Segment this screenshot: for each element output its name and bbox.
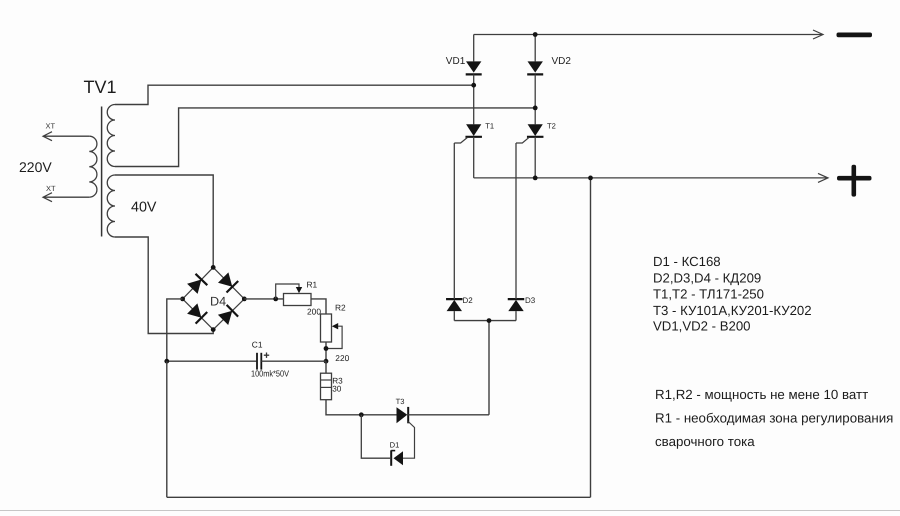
thyristor T2	[516, 124, 543, 143]
wire VD1 to T1	[473, 74, 475, 124]
label D1	[390, 440, 400, 449]
wire riser T3 to D2 D3 join	[488, 321, 490, 415]
node bridge bottom	[211, 327, 216, 332]
svg-text:100mk*50V: 100mk*50V	[251, 368, 289, 378]
diode D3	[508, 299, 525, 311]
svg-text:D2,D3,D4 - КД209: D2,D3,D4 - КД209	[653, 270, 761, 285]
bridge diode D4 bottom-left	[187, 303, 207, 323]
wire bridge left to C1 rail	[167, 299, 183, 361]
label VD2	[552, 56, 572, 67]
wire primary top lead	[43, 135, 89, 137]
svg-text:VD2: VD2	[552, 56, 572, 67]
wire T3 gate	[403, 422, 415, 459]
node D2 D3 join	[487, 318, 492, 323]
wire bridge right to R1	[244, 298, 283, 300]
svg-text:D2: D2	[463, 296, 474, 305]
label 30	[332, 384, 342, 393]
svg-text:220: 220	[335, 353, 349, 363]
wire secondary top lead to VD1 node	[115, 85, 474, 104]
R2 wiper arm	[326, 323, 342, 349]
plus bus arrowhead	[818, 173, 828, 182]
label D4	[210, 295, 226, 309]
wire D1 anode loop	[361, 415, 391, 458]
transformer TV1 secondary upper winding	[107, 105, 115, 167]
wire R2 bottom	[325, 342, 327, 361]
node C1 rail left junction	[164, 359, 169, 364]
transformer TV1 primary winding	[89, 136, 97, 197]
label XT top	[46, 122, 56, 131]
wire C1 rail left segment	[167, 360, 256, 362]
svg-text:T1,T2 - ТЛ171-250: T1,T2 - ТЛ171-250	[653, 287, 764, 302]
transformer TV1 secondary lower winding 40V	[107, 175, 115, 237]
label 100mk*50V	[251, 368, 289, 378]
resistor R2 body	[321, 314, 332, 342]
R1 wiper arm	[276, 284, 303, 299]
wire primary bottom lead	[43, 196, 89, 198]
diode VD1	[466, 61, 482, 74]
bottom bus wire	[167, 496, 591, 498]
svg-text:R1,R2 - мощность не мене 10 ва: R1,R2 - мощность не мене 10 ватт	[655, 387, 868, 402]
node bridge right	[242, 297, 247, 302]
zener diode D1	[391, 450, 403, 466]
wire T1 gate riser to D2	[453, 143, 455, 299]
svg-text:R1 - необходимая зона регулиро: R1 - необходимая зона регулирования	[655, 411, 893, 426]
rectifier bridge D4 frame	[183, 267, 245, 329]
label T2	[547, 121, 556, 130]
node D1 loop junction	[359, 412, 364, 417]
label 200	[307, 306, 321, 316]
node bridge left	[180, 297, 185, 302]
label 40V	[131, 199, 157, 215]
node R2 wiper junction	[324, 346, 329, 351]
svg-text:D4: D4	[210, 295, 226, 309]
wire T2 cathode to plus bus	[534, 137, 536, 178]
svg-text:D1: D1	[390, 440, 400, 449]
wire 40V top lead to bridge top	[115, 175, 213, 267]
label T1	[485, 121, 494, 130]
wire D3 anode down	[515, 311, 517, 321]
svg-text:R1: R1	[307, 279, 318, 289]
svg-text:TV1: TV1	[84, 77, 117, 97]
node T2 plus junction	[533, 176, 538, 181]
wire T2 gate riser to D3	[515, 143, 517, 299]
svg-text:XT: XT	[46, 122, 56, 131]
wire VD2 to T2	[534, 74, 536, 124]
label D2	[463, 296, 474, 305]
svg-text:сварочного тока: сварочного тока	[655, 434, 755, 449]
bridge diode D4 top-left	[187, 274, 207, 294]
label C1	[252, 339, 263, 349]
svg-text:T3 - КУ101А,КУ201-КУ202: T3 - КУ101А,КУ201-КУ202	[653, 303, 812, 318]
plus bus wire	[474, 177, 827, 179]
parts list text block	[653, 254, 812, 334]
wire right vertical bottom bus to plus bus	[590, 178, 592, 497]
node right riser plus junction	[588, 176, 593, 181]
resistor R3 body	[321, 373, 332, 400]
svg-text:VD1,VD2 - В200: VD1,VD2 - В200	[653, 319, 751, 334]
wire R3 to T3 anode	[326, 400, 397, 415]
page separator line	[0, 510, 900, 512]
svg-text:D1 - КС168: D1 - КС168	[653, 254, 721, 269]
svg-text:C1: C1	[252, 339, 263, 349]
wire D2 anode down	[453, 311, 455, 321]
wire C1 rail down to bottom bus	[166, 361, 168, 497]
resistor R1 body	[284, 294, 312, 306]
svg-text:T1: T1	[485, 121, 494, 130]
wire VD1 branch	[473, 35, 475, 62]
diode D2	[446, 299, 463, 311]
node VD2 top	[533, 32, 538, 37]
wire T3 cathode to right riser	[408, 414, 489, 416]
label TV1	[84, 77, 117, 97]
svg-text:VD1: VD1	[446, 56, 466, 67]
svg-text:R2: R2	[335, 302, 346, 312]
svg-text:40V: 40V	[131, 199, 157, 215]
bridge diode D4 bottom-right	[218, 305, 238, 325]
label D3	[525, 296, 536, 305]
terminal minus symbol	[837, 33, 873, 38]
wire VD2 branch	[534, 35, 536, 62]
label 220V	[19, 159, 52, 175]
terminal XT top arrow	[43, 132, 52, 141]
bridge diode D4 top-right	[218, 272, 238, 292]
svg-text:D3: D3	[525, 296, 536, 305]
svg-text:T2: T2	[547, 121, 556, 130]
node C1 rail right junction	[324, 359, 329, 364]
label 220	[335, 353, 349, 363]
svg-text:XT: XT	[46, 184, 56, 193]
transformer TV1 core	[101, 107, 103, 237]
wire R2-R3 connect	[325, 361, 327, 373]
capacitor C1	[257, 353, 326, 370]
thyristor T3	[397, 407, 409, 423]
wire secondary tap lead to VD2 node	[115, 108, 535, 167]
node R1 wiper junction	[273, 297, 278, 302]
diode VD2	[527, 61, 543, 74]
node VD1 transformer tap	[471, 83, 476, 88]
svg-text:200: 200	[307, 306, 321, 316]
label T3	[396, 397, 405, 406]
terminal XT bottom arrow	[43, 193, 52, 202]
wire R1 to R2	[311, 299, 326, 314]
thyristor T1	[454, 124, 482, 143]
label VD1	[446, 56, 466, 67]
wire D2 D3 join	[454, 320, 516, 322]
label R1	[307, 279, 318, 289]
node bridge top	[211, 265, 216, 270]
svg-text:T3: T3	[396, 397, 405, 406]
wire T1 cathode to plus bus	[473, 137, 475, 178]
terminal plus symbol	[837, 165, 872, 197]
node VD2 transformer tap	[533, 106, 538, 111]
notes text block	[655, 387, 893, 449]
minus bus wire	[474, 34, 822, 36]
svg-text:30: 30	[332, 384, 342, 393]
svg-text:220V: 220V	[19, 159, 52, 175]
label XT bottom	[46, 184, 56, 193]
minus bus arrowhead	[813, 30, 823, 39]
label R2	[335, 302, 346, 312]
wire 40V bottom lead to bridge bottom	[115, 237, 213, 334]
label R3	[332, 376, 343, 385]
